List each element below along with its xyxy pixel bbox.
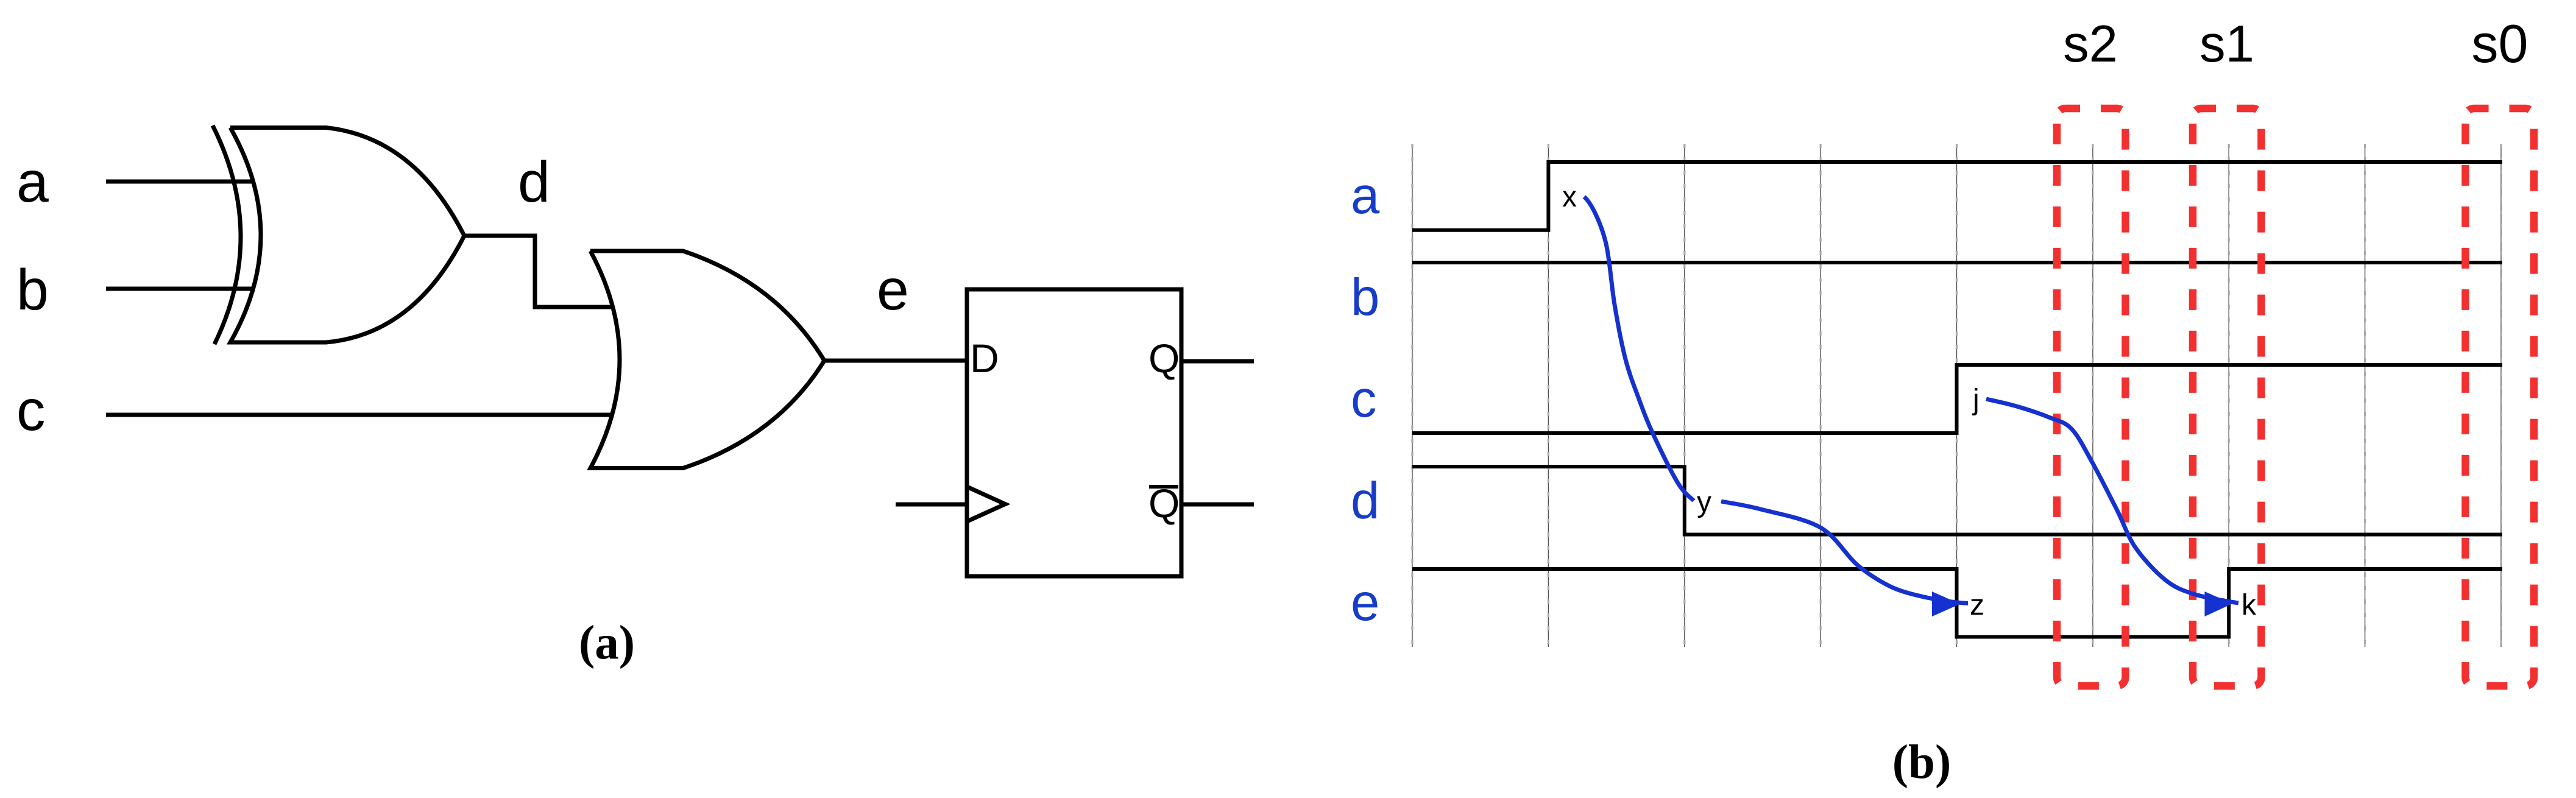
svg-text:s1: s1 xyxy=(2199,15,2254,73)
svg-text:x: x xyxy=(1562,181,1577,213)
svg-text:(b): (b) xyxy=(1892,736,1951,789)
svg-text:Q: Q xyxy=(1148,336,1180,381)
svg-text:Q: Q xyxy=(1148,481,1180,526)
svg-text:j: j xyxy=(1972,384,1980,416)
svg-text:b: b xyxy=(16,258,49,322)
svg-text:c: c xyxy=(16,378,46,443)
svg-text:d: d xyxy=(518,150,550,214)
svg-text:d: d xyxy=(1351,472,1379,530)
svg-text:k: k xyxy=(2242,589,2257,621)
svg-text:c: c xyxy=(1351,370,1377,428)
svg-text:a: a xyxy=(1351,167,1380,225)
svg-text:b: b xyxy=(1351,269,1379,327)
svg-text:(a): (a) xyxy=(579,616,635,669)
svg-text:e: e xyxy=(877,258,909,322)
svg-text:s0: s0 xyxy=(2472,13,2528,74)
svg-text:e: e xyxy=(1351,574,1379,632)
svg-text:D: D xyxy=(970,336,999,381)
svg-text:s2: s2 xyxy=(2063,15,2118,73)
svg-text:a: a xyxy=(16,150,49,214)
svg-text:z: z xyxy=(1970,589,1984,621)
svg-text:y: y xyxy=(1697,486,1711,518)
